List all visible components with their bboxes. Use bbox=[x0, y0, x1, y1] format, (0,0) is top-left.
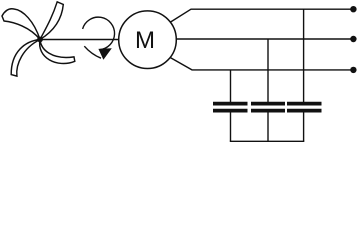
rotation arrow head bbox=[98, 48, 111, 60]
capacitor C2 bbox=[251, 104, 285, 111]
rotation arrow tail bbox=[84, 46, 101, 58]
shaft wire fan-to-motor bbox=[40, 39, 119, 41]
terminal dot top bbox=[350, 6, 356, 12]
fan blade lower-left bbox=[11, 40, 40, 77]
svg-text:M: M bbox=[135, 27, 155, 54]
capacitor C3 bbox=[287, 104, 322, 111]
bus wire bottom bbox=[230, 140, 304, 142]
wire phase middle bbox=[176, 38, 353, 40]
fan hub bbox=[37, 37, 43, 43]
wire drop to C3 bbox=[303, 9, 305, 102]
wire phase top bbox=[170, 9, 353, 22]
wire drop to C2 bbox=[267, 39, 269, 102]
fan blade upper-left bbox=[2, 9, 40, 40]
terminal dot bottom bbox=[350, 67, 356, 73]
wire phase bottom bbox=[170, 58, 353, 70]
rotation arrow arc bbox=[83, 17, 115, 50]
fan blade upper-right bbox=[40, 2, 63, 40]
wire C2 to bus bbox=[267, 112, 269, 141]
wire C3 to bus bbox=[303, 112, 305, 141]
wire C1 to bus bbox=[230, 112, 232, 141]
capacitor C1 bbox=[213, 104, 248, 111]
motor circle M bbox=[119, 11, 177, 69]
fan blade lower-right bbox=[40, 40, 75, 64]
terminal dot middle bbox=[350, 36, 356, 42]
wire drop to C1 bbox=[230, 70, 232, 102]
